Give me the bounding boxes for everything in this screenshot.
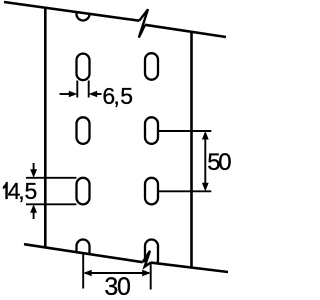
- dim 6,5 right arrow: [94, 93, 102, 95]
- svg-text:30: 30: [104, 273, 131, 300]
- plate bottom edge left segment: [24, 244, 143, 262]
- dim 50 dimension line: [204, 133, 206, 189]
- svg-text:4,5: 4,5: [8, 178, 38, 204]
- slot hole row3 right: [145, 178, 158, 205]
- dim 30 right arrow: [142, 270, 151, 276]
- plate right edge: [190, 32, 193, 267]
- dim 14,5 bottom arrow: [33, 211, 35, 219]
- slot hole row2 right: [145, 117, 158, 144]
- dim 30 extension line right: [150, 263, 152, 290]
- dim 50 extension line bottom: [158, 190, 211, 192]
- dim 50 extension line top: [158, 130, 211, 132]
- dim 14,5 extension line bottom: [26, 203, 76, 205]
- slot hole row1 right: [145, 53, 158, 79]
- slot hole bottom partial left: [77, 240, 90, 267]
- dim 30 left arrow: [83, 270, 92, 276]
- dim 14,5 extension line top: [26, 177, 76, 179]
- dim 14,5 label: [3, 182, 8, 199]
- break symbol top: [139, 9, 148, 37]
- plate top edge right segment: [145, 25, 226, 37]
- dim 50 up arrow: [202, 131, 209, 140]
- plate left edge: [44, 8, 47, 248]
- slot hole top partial left column: [77, 0, 90, 21]
- dim 6,5 extension line left: [76, 81, 78, 98]
- dim 30 dimension line: [85, 272, 149, 274]
- dim 14,5 top arrow: [33, 163, 35, 171]
- dim 50 down arrow: [202, 183, 209, 192]
- svg-text:50: 50: [207, 149, 231, 176]
- slot hole row2 left: [77, 117, 90, 144]
- svg-text:6,5: 6,5: [102, 83, 133, 109]
- slot hole row3 left (14,5 hole): [77, 178, 90, 205]
- dim 6,5 left arrow: [60, 93, 73, 95]
- dim 30 extension line left: [82, 253, 84, 289]
- break symbol bottom: [143, 251, 151, 267]
- dim 6,5 extension line right: [88, 81, 90, 98]
- slot hole row1 left: [77, 54, 90, 81]
- plate top edge left segment: [4, 2, 139, 21]
- plate bottom edge right segment: [151, 263, 229, 272]
- slot hole bottom partial right: [145, 240, 158, 267]
